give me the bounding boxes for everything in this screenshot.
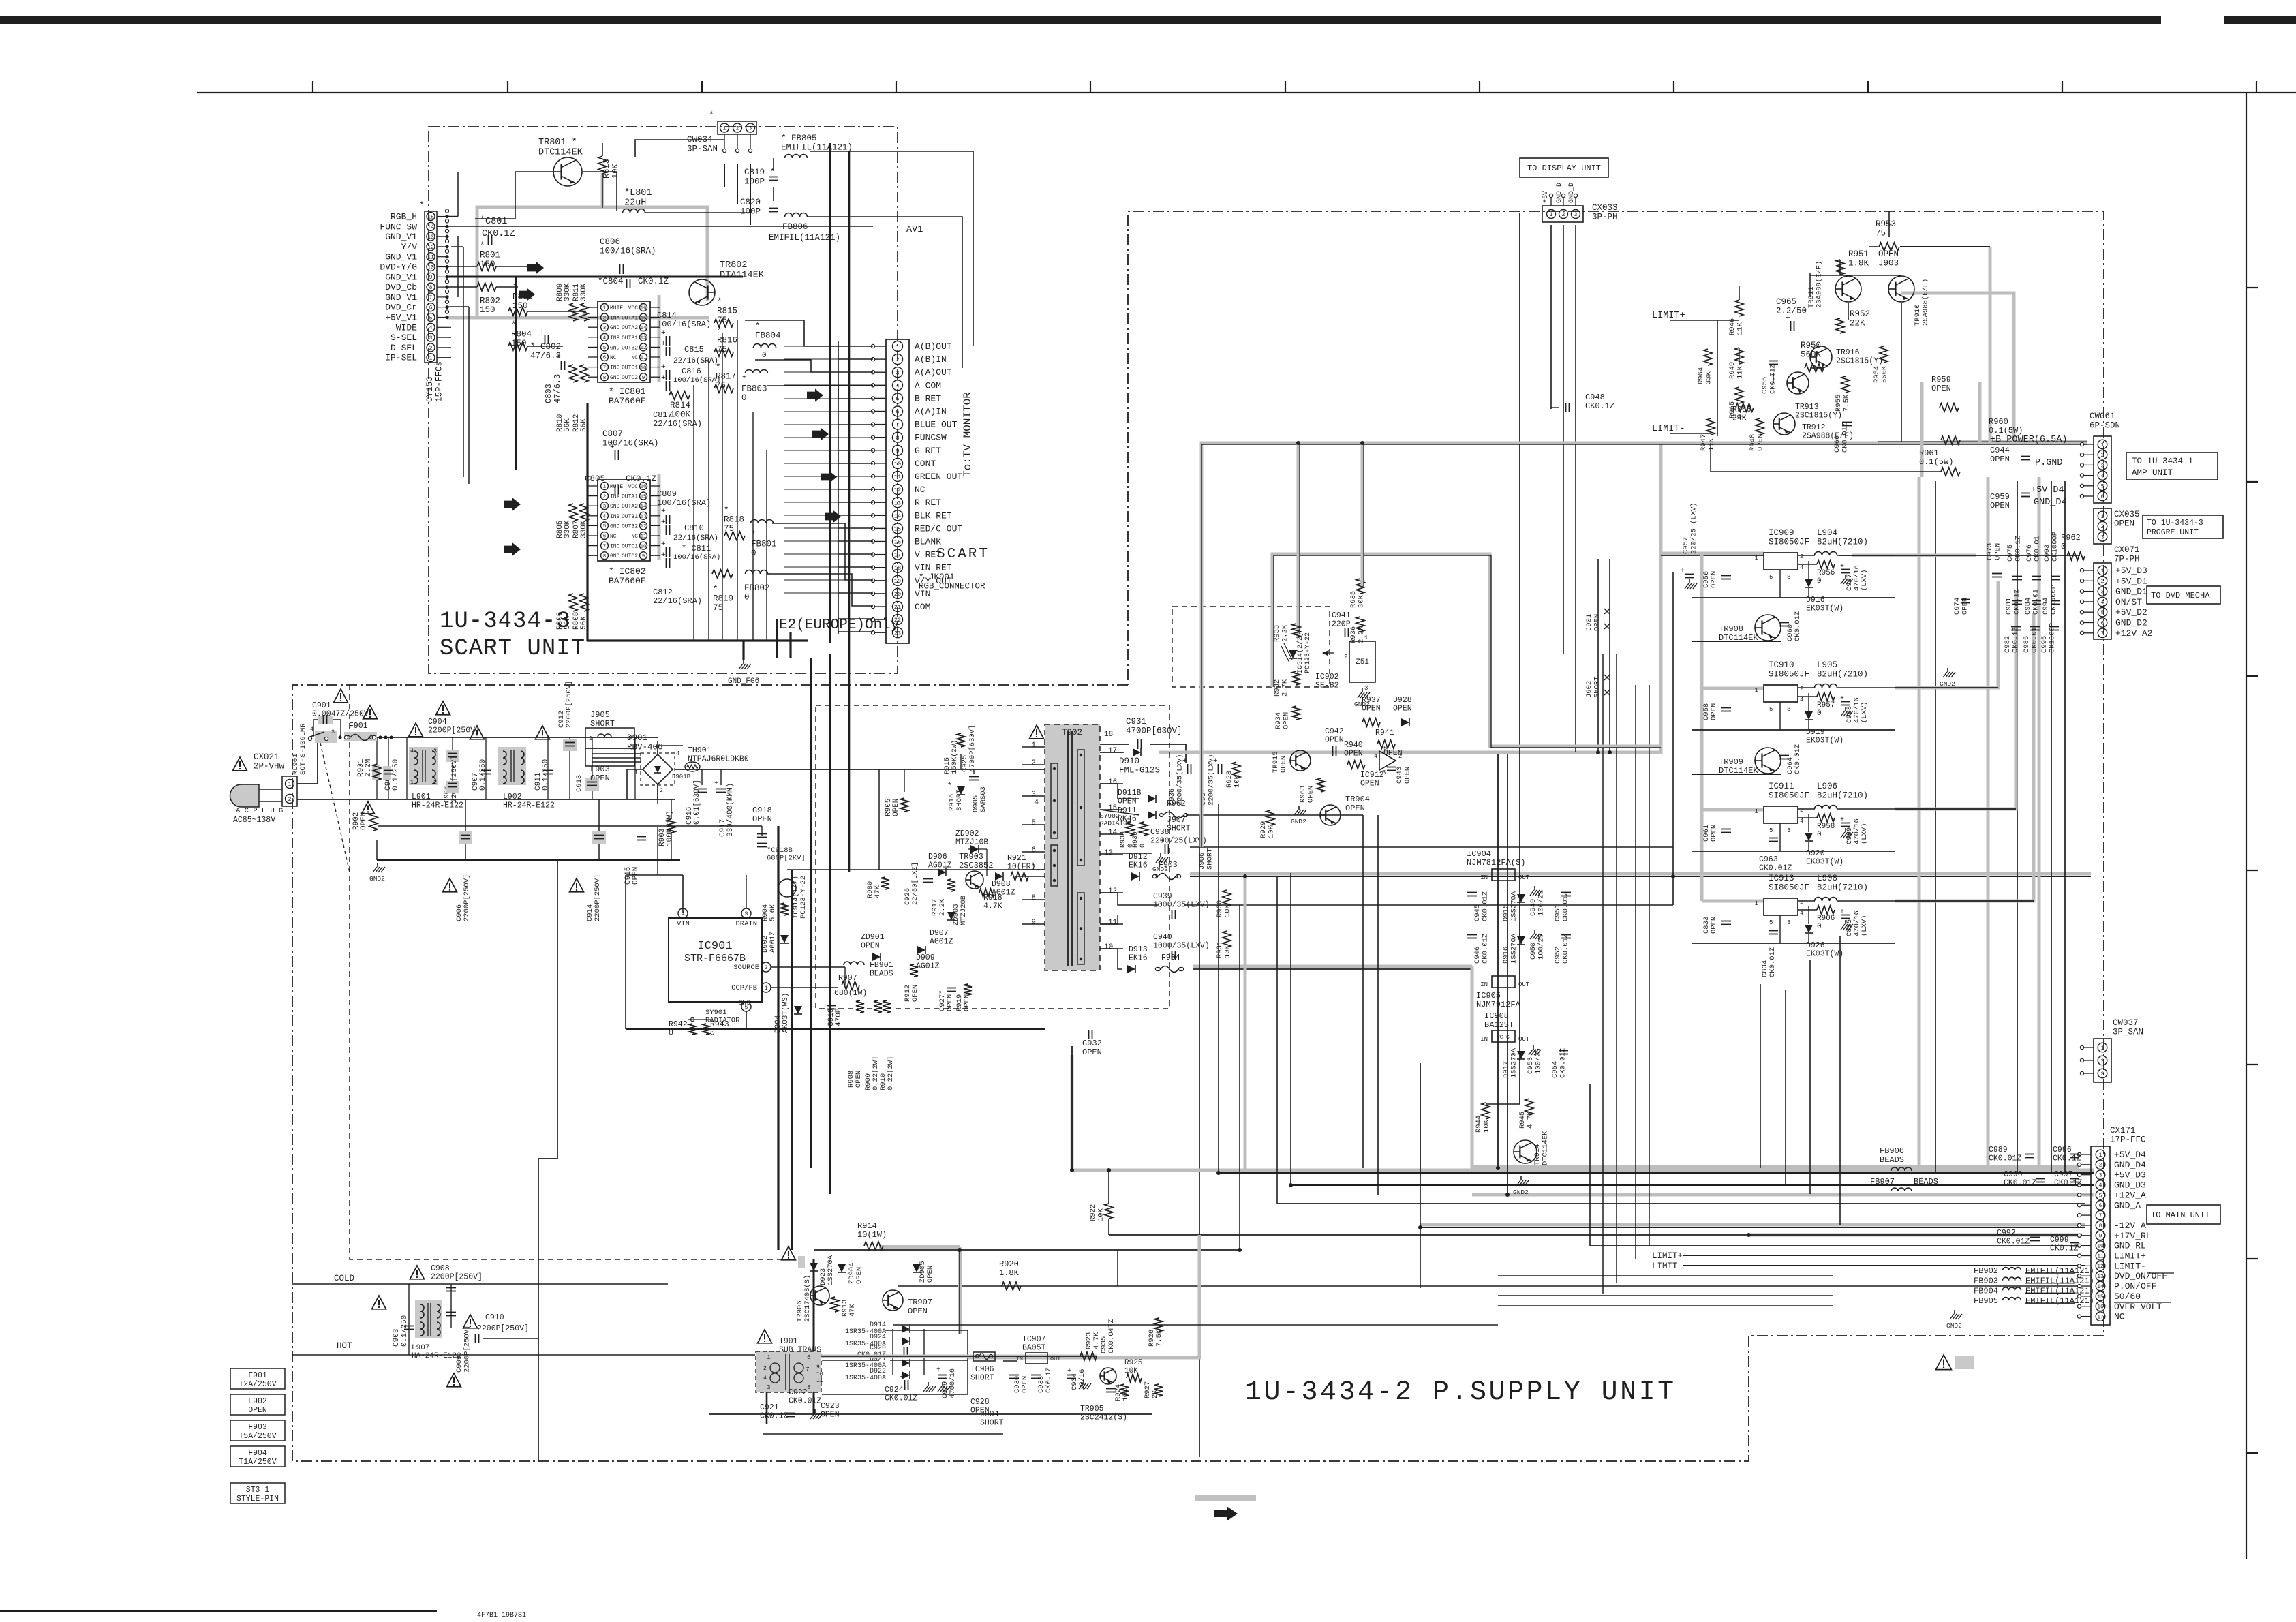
svg-text:1SS270A: 1SS270A — [1510, 933, 1518, 964]
dashed boundary inner hot/cold — [350, 685, 794, 1259]
svg-text:0.1/250: 0.1/250 — [392, 759, 400, 791]
svg-text:IC910: IC910 — [1769, 660, 1794, 670]
svg-text:C908: C908 — [431, 1264, 450, 1273]
svg-text:IC902: IC902 — [1315, 673, 1339, 682]
svg-text:C954: C954 — [1551, 1061, 1559, 1078]
IC901 STR-F6667B — [669, 918, 762, 1002]
svg-text:C950: C950 — [1529, 943, 1537, 960]
svg-text:SHORT: SHORT — [970, 1374, 994, 1383]
svg-text:0: 0 — [1139, 844, 1147, 848]
regulator input gray feeder — [1700, 553, 1704, 901]
svg-text:11: 11 — [1108, 919, 1118, 927]
svg-text:14: 14 — [427, 224, 434, 230]
svg-text:IN: IN — [1480, 1036, 1488, 1043]
svg-text:5: 5 — [1031, 819, 1036, 827]
svg-text:470P: 470P — [835, 1008, 843, 1026]
svg-text:R961: R961 — [1919, 448, 1939, 458]
svg-text:TR915: TR915 — [1272, 751, 1280, 773]
svg-text:2SC1815(Y): 2SC1815(Y) — [1795, 412, 1842, 420]
svg-text:1: 1 — [2101, 514, 2104, 520]
svg-text:R933: R933 — [1273, 625, 1281, 642]
svg-text:OPEN: OPEN — [1710, 703, 1718, 720]
svg-text:R914: R914 — [857, 1221, 877, 1231]
feedback dashed box — [1172, 607, 1330, 687]
svg-text:GND2: GND2 — [1291, 818, 1306, 825]
svg-text:CK0.1Z: CK0.1Z — [638, 277, 669, 286]
svg-text:R947: R947 — [1700, 434, 1708, 451]
svg-text:GND2: GND2 — [369, 875, 385, 883]
connector CX033 3P-PH — [1542, 206, 1583, 222]
svg-text:TR904: TR904 — [1345, 795, 1370, 804]
right ruler tick 4 — [2246, 870, 2258, 871]
svg-text:RGB_H: RGB_H — [391, 212, 417, 222]
signal arrow 5 — [807, 388, 823, 401]
J901 J902 jumper marks — [1604, 609, 1610, 614]
svg-text:CK0.01Z: CK0.01Z — [1989, 1154, 2021, 1163]
svg-text:GND: GND — [610, 504, 620, 510]
svg-text:+: + — [900, 1373, 904, 1381]
svg-text:CX071: CX071 — [2114, 545, 2140, 555]
svg-text:OUTC2: OUTC2 — [622, 375, 638, 381]
svg-text:+: + — [661, 551, 666, 560]
svg-text:CK0.01Z: CK0.01Z — [1841, 423, 1850, 453]
capacitor C908 2200P[250V] — [410, 1266, 425, 1279]
ground GND2 primary — [377, 863, 378, 867]
ground GND2 TR914 — [1520, 1176, 1522, 1180]
top header bar right segment — [2224, 16, 2296, 24]
feedback arrow — [1322, 650, 1329, 656]
svg-text:*C918B: *C918B — [767, 846, 793, 855]
svg-text:VCC: VCC — [628, 305, 639, 311]
signal arrow 8 — [825, 510, 841, 523]
svg-text:CK0.1Z: CK0.1Z — [2013, 589, 2021, 615]
svg-text:TR907: TR907 — [908, 1298, 932, 1307]
svg-text:OPEN: OPEN — [926, 1266, 934, 1283]
svg-text:C910: C910 — [485, 1313, 504, 1322]
svg-text:R907: R907 — [838, 974, 857, 983]
svg-text:GND: GND — [610, 375, 620, 381]
gray trace bottom — [968, 1235, 1199, 1358]
svg-text:NC: NC — [2114, 1312, 2125, 1322]
svg-text:*: * — [751, 530, 756, 540]
svg-text:4F7B1 19B7S1: 4F7B1 19B7S1 — [477, 1612, 526, 1619]
IC909 ground rail — [1692, 597, 1895, 598]
svg-text:BA05T: BA05T — [1022, 1344, 1046, 1353]
svg-text:5: 5 — [1769, 827, 1773, 834]
svg-text:100/16(SRA): 100/16(SRA) — [600, 247, 656, 256]
capacitor C910 2200P[250V] — [463, 1315, 478, 1328]
svg-text:OPEN: OPEN — [1362, 705, 1381, 714]
svg-text:L908: L908 — [1817, 874, 1837, 883]
svg-text:15: 15 — [1108, 804, 1117, 812]
svg-text:CW037: CW037 — [2113, 1018, 2139, 1028]
svg-text:C928: C928 — [970, 1398, 990, 1407]
svg-text:2.2K: 2.2K — [1281, 624, 1289, 642]
right ruler tick 5 — [2246, 1064, 2258, 1065]
svg-text:14: 14 — [640, 504, 647, 510]
svg-text:82uH(7210): 82uH(7210) — [1817, 538, 1868, 547]
svg-text:1SS270A: 1SS270A — [1510, 891, 1518, 921]
svg-text:3P-SAN: 3P-SAN — [687, 144, 718, 154]
top header bar left segment — [0, 16, 2161, 24]
svg-text:+: + — [1182, 757, 1187, 765]
svg-text:3: 3 — [1787, 706, 1790, 713]
svg-text:OPEN: OPEN — [1345, 804, 1365, 813]
svg-text:L907: L907 — [412, 1344, 429, 1352]
svg-text:FB905: FB905 — [1974, 1296, 1998, 1306]
svg-text:GND: GND — [610, 345, 620, 351]
svg-text:4: 4 — [1034, 799, 1039, 807]
svg-text:P.ON/OFF: P.ON/OFF — [2114, 1281, 2156, 1291]
regulator output routes — [1852, 554, 1976, 557]
svg-text:OPEN: OPEN — [1021, 1376, 1029, 1393]
svg-text:G RET: G RET — [915, 446, 941, 456]
svg-text:5: 5 — [1769, 706, 1773, 713]
svg-text:4: 4 — [2099, 1182, 2102, 1189]
svg-text:0: 0 — [2061, 542, 2066, 551]
svg-text:PROGRE UNIT: PROGRE UNIT — [2147, 528, 2199, 537]
svg-text:C923: C923 — [821, 1402, 840, 1411]
connector JK901 SCART 23 pins — [886, 339, 909, 643]
svg-text:DVD_Cr: DVD_Cr — [385, 303, 417, 313]
svg-text:C997: C997 — [2054, 1170, 2073, 1179]
svg-text:2200P[250V]: 2200P[250V] — [431, 1273, 483, 1282]
resistor R958 0 — [1817, 814, 1835, 822]
svg-text:7P-PH: 7P-PH — [2114, 555, 2140, 564]
svg-text:6: 6 — [1031, 846, 1036, 855]
svg-text:CY153: CY153 — [425, 376, 435, 402]
svg-text:+: + — [936, 1366, 940, 1374]
svg-text:1SS270A: 1SS270A — [827, 1255, 835, 1285]
top ruler tick 1 — [312, 81, 313, 93]
svg-text:21: 21 — [894, 604, 901, 611]
svg-text:C994: C994 — [2042, 598, 2050, 615]
transistor TR914 DTC114EK — [1514, 1140, 1537, 1163]
svg-text:CX035: CX035 — [2114, 510, 2140, 519]
svg-text:2200P[250V]: 2200P[250V] — [428, 726, 480, 735]
transistor TR916 2SC1815(Y) — [1810, 346, 1832, 368]
svg-text:AG01Z: AG01Z — [930, 938, 953, 947]
svg-text:CW061: CW061 — [2090, 412, 2115, 421]
connector CY153 15P-FFCs — [425, 211, 437, 363]
svg-text:2: 2 — [1031, 759, 1036, 767]
svg-text:C939: C939 — [1153, 892, 1172, 901]
svg-text:ZD901: ZD901 — [861, 933, 885, 942]
svg-text:8: 8 — [603, 554, 607, 560]
svg-text:TR916: TR916 — [1836, 348, 1860, 357]
svg-text:11: 11 — [640, 534, 647, 540]
svg-text:CK0.047Z: CK0.047Z — [1107, 1319, 1116, 1353]
transistor TR910 2SA988(E/F) — [1888, 276, 1914, 302]
svg-text:9: 9 — [816, 1364, 820, 1371]
svg-text:1U-3434-2 P.SUPPLY UNIT: 1U-3434-2 P.SUPPLY UNIT — [1245, 1377, 1677, 1408]
svg-text:13: 13 — [427, 234, 434, 241]
svg-text:4: 4 — [763, 1375, 767, 1381]
svg-text:2: 2 — [1398, 753, 1402, 760]
svg-text:F904: F904 — [248, 1449, 267, 1458]
svg-text:2200P[250V]: 2200P[250V] — [450, 756, 459, 803]
svg-text:12: 12 — [640, 346, 646, 351]
svg-text:1: 1 — [1550, 212, 1553, 218]
svg-text:4: 4 — [2101, 600, 2104, 606]
svg-text:TR801 *: TR801 * — [538, 138, 577, 148]
T902 pin stub wires — [1100, 752, 1123, 753]
svg-text:R935: R935 — [1349, 591, 1358, 608]
big gray feedback route +B — [1201, 443, 2087, 847]
svg-text:T5A/250V: T5A/250V — [239, 1432, 276, 1441]
svg-text:+17V_RL: +17V_RL — [2114, 1231, 2152, 1241]
svg-text:6: 6 — [2099, 1203, 2102, 1209]
svg-text:C952: C952 — [1554, 947, 1562, 964]
svg-text:R944: R944 — [1475, 1116, 1483, 1133]
ground bottom C921 — [814, 1409, 816, 1413]
primary ground bus GND2 — [377, 859, 680, 861]
P.SUPPLY unit dash-dot border 1U-3434-2 — [292, 211, 2104, 1461]
svg-text:INC: INC — [610, 365, 620, 371]
svg-text:IC907: IC907 — [1022, 1335, 1046, 1344]
regulator down verticals — [1760, 984, 1761, 1168]
svg-text:FUNCSW: FUNCSW — [915, 433, 947, 443]
svg-text:TR802: TR802 — [720, 260, 748, 271]
gray vertical feeders — [1244, 876, 1247, 1170]
transformer L901 HR-24R-E122 — [409, 747, 438, 785]
label box TO 1U-3434-1 AMP UNIT — [2126, 453, 2218, 480]
svg-text:1U-3434-3: 1U-3434-3 — [440, 609, 571, 634]
svg-text:3: 3 — [1787, 574, 1790, 581]
primary AC wires — [297, 783, 318, 784]
svg-text:22K: 22K — [1850, 319, 1865, 328]
svg-text:R934: R934 — [1274, 712, 1283, 729]
svg-text:R804: R804 — [511, 330, 532, 339]
svg-text:IC904: IC904 — [1467, 849, 1491, 859]
svg-text:5: 5 — [429, 315, 433, 321]
svg-text:330/400(KMM): 330/400(KMM) — [726, 783, 735, 837]
svg-text:2: 2 — [2101, 453, 2104, 459]
svg-text:CK0.1Z: CK0.1Z — [1045, 1367, 1053, 1393]
transformer L907 HA-24R-E122 — [415, 1300, 442, 1338]
svg-text:3: 3 — [1364, 685, 1368, 692]
svg-text:3P-PH: 3P-PH — [1592, 213, 1618, 222]
svg-text:22uH: 22uH — [624, 198, 646, 209]
svg-text:2: 2 — [288, 797, 292, 803]
svg-text:OUTC1: OUTC1 — [622, 365, 638, 371]
signal arrow 6 — [812, 427, 829, 440]
jumper IC906 SHORT — [973, 1352, 995, 1361]
svg-text:IN: IN — [1480, 874, 1488, 881]
svg-text:BEADS: BEADS — [1914, 1177, 1938, 1187]
svg-text:C957: C957 — [1682, 537, 1690, 554]
svg-text:C942: C942 — [1325, 727, 1344, 736]
svg-text:RED/C OUT: RED/C OUT — [915, 523, 962, 534]
svg-text:R937: R937 — [1362, 696, 1381, 705]
signal arrow 4 — [504, 542, 521, 555]
svg-text:FB803: FB803 — [741, 384, 767, 394]
svg-text:DTC114EK: DTC114EK — [538, 148, 583, 158]
svg-text:C974: C974 — [1953, 598, 1961, 615]
svg-text:B RET: B RET — [915, 393, 941, 403]
svg-text:C948: C948 — [1585, 393, 1605, 402]
svg-text:1.8K: 1.8K — [1848, 259, 1869, 269]
svg-text:3: 3 — [2101, 534, 2104, 540]
svg-text:CK0.01: CK0.01 — [2031, 627, 2039, 653]
svg-text:BA7660F: BA7660F — [609, 396, 646, 406]
svg-text:C945: C945 — [1473, 904, 1482, 921]
svg-text:3: 3 — [1787, 827, 1790, 834]
svg-text:330K: 330K — [580, 283, 588, 301]
svg-text:ST3 1: ST3 1 — [246, 1486, 270, 1495]
svg-text:4: 4 — [896, 382, 899, 389]
svg-text:VIN: VIN — [677, 920, 690, 928]
svg-text:DTC114EK: DTC114EK — [1542, 1131, 1550, 1165]
svg-text:2200/25(LXV): 2200/25(LXV) — [1150, 837, 1207, 846]
svg-text:F902: F902 — [1167, 799, 1186, 808]
svg-text:7: 7 — [603, 365, 607, 371]
svg-text:CK0.1Z: CK0.1Z — [2053, 1154, 2081, 1163]
svg-text:GND_V1: GND_V1 — [385, 292, 417, 303]
svg-text:A(B)OUT: A(B)OUT — [915, 341, 952, 352]
svg-text:G: G — [1506, 1035, 1510, 1041]
ground GND_FG6 — [743, 643, 745, 660]
svg-text:4.7K: 4.7K — [983, 902, 1002, 911]
svg-text:0: 0 — [762, 352, 767, 360]
svg-text:OUT: OUT — [1050, 1356, 1060, 1362]
svg-text:220P: 220P — [1332, 620, 1351, 629]
svg-text:J903: J903 — [1878, 259, 1899, 269]
svg-text:9: 9 — [1031, 919, 1036, 927]
svg-text:CK0.1Z: CK0.1Z — [2054, 1179, 2083, 1188]
svg-text:LIMIT-: LIMIT- — [2114, 1261, 2146, 1271]
svg-text:R815: R815 — [717, 307, 737, 316]
svg-text:100P: 100P — [744, 177, 765, 187]
svg-text:SI8050JF: SI8050JF — [1769, 538, 1809, 547]
svg-text:+: + — [1160, 838, 1165, 846]
svg-text:100/16(SRA): 100/16(SRA) — [657, 498, 711, 508]
svg-text:3: 3 — [2101, 1071, 2104, 1077]
svg-text:+: + — [1213, 757, 1218, 765]
svg-text:CK0.01Z: CK0.01Z — [2004, 1179, 2036, 1188]
svg-text:AG01Z: AG01Z — [928, 861, 952, 870]
svg-text:2.2/50: 2.2/50 — [1776, 307, 1807, 316]
svg-text:L901: L901 — [412, 793, 431, 801]
svg-text:IC914(2/2): IC914(2/2) — [1296, 632, 1304, 673]
svg-text:GND_D: GND_D — [1556, 183, 1563, 203]
svg-text:SOT-S-109LMR: SOT-S-109LMR — [299, 723, 307, 775]
svg-text:5: 5 — [603, 346, 607, 351]
svg-text:D917: D917 — [1502, 1061, 1510, 1078]
svg-text:AG01Z: AG01Z — [769, 931, 777, 953]
svg-text:4: 4 — [1800, 564, 1803, 571]
svg-text:FB802: FB802 — [744, 583, 770, 593]
svg-text:NTPAJ6R0LDKB0: NTPAJ6R0LDKB0 — [688, 755, 749, 764]
svg-text:RGB_CONNECTOR: RGB_CONNECTOR — [919, 582, 985, 592]
comparator IC912 OPEN — [1379, 751, 1396, 770]
overline on OFF / 50/60 / OVER VOLT — [2147, 1272, 2174, 1274]
svg-text:OPEN: OPEN — [821, 1411, 840, 1420]
svg-text:+: + — [661, 329, 666, 337]
svg-text:2: 2 — [1800, 899, 1803, 906]
svg-text:INB: INB — [610, 335, 620, 341]
svg-text:WIDE: WIDE — [396, 322, 417, 333]
svg-text:4700P[630V]: 4700P[630V] — [1126, 726, 1182, 736]
svg-text:CK0.01Z: CK0.01Z — [1997, 1238, 2030, 1246]
svg-text:GND_D3: GND_D3 — [2114, 1180, 2146, 1191]
svg-text:R802: R802 — [480, 296, 500, 306]
svg-text:FB804: FB804 — [755, 331, 781, 341]
svg-text:1: 1 — [2101, 442, 2104, 448]
svg-text:R942: R942 — [669, 1020, 688, 1029]
svg-text:4: 4 — [1800, 910, 1803, 917]
svg-text:SI8050JF: SI8050JF — [1769, 670, 1809, 679]
svg-text:VC: VC — [1497, 1035, 1503, 1041]
svg-text:EK03T(W): EK03T(W) — [1806, 858, 1843, 867]
svg-text:7.5K: 7.5K — [1843, 394, 1851, 412]
svg-text:CK1000P: CK1000P — [2050, 585, 2058, 615]
inductor L903 OPEN — [585, 748, 634, 766]
svg-text:5: 5 — [2101, 484, 2104, 490]
svg-text:CK0.1Z: CK0.1Z — [2050, 1244, 2079, 1253]
svg-text:100/16(SRA): 100/16(SRA) — [673, 376, 720, 384]
svg-text:LIMIT+: LIMIT+ — [1652, 1251, 1683, 1261]
svg-text:CK1000P: CK1000P — [2049, 623, 2057, 653]
svg-text:SI8050JF: SI8050JF — [1769, 791, 1809, 801]
svg-text:C814: C814 — [657, 311, 677, 320]
svg-text:J905: J905 — [590, 710, 610, 720]
svg-text:11K: 11K — [1708, 438, 1716, 451]
svg-text:15: 15 — [640, 494, 647, 500]
svg-text:*: * — [755, 322, 761, 331]
svg-text:TO MAIN UNIT: TO MAIN UNIT — [2151, 1210, 2209, 1220]
svg-text:C803: C803 — [544, 384, 553, 403]
capacitor C909 2200P[250V] — [447, 1373, 461, 1387]
svg-text:C989: C989 — [1989, 1146, 2008, 1154]
misc crossing verticals center — [1649, 685, 1650, 1246]
svg-text:AG01Z: AG01Z — [992, 889, 1015, 898]
svg-text:HA-24R-E122: HA-24R-E122 — [412, 1352, 461, 1360]
svg-text:CK0.01Z: CK0.01Z — [1769, 947, 1777, 977]
svg-text:R949: R949 — [1728, 362, 1736, 379]
svg-text:9: 9 — [642, 376, 645, 381]
svg-text:100/16(SRA): 100/16(SRA) — [673, 553, 720, 562]
svg-text:FB906: FB906 — [1880, 1146, 1904, 1156]
svg-text:D913: D913 — [1129, 945, 1148, 954]
SCART connector routing bundle — [693, 385, 694, 641]
svg-text:GND_V1: GND_V1 — [385, 232, 417, 242]
svg-text:OPEN: OPEN — [1593, 614, 1602, 631]
IC911 ground rail — [1692, 851, 1895, 852]
svg-text:*C804: *C804 — [598, 277, 624, 286]
ground GND2 TR915 — [1298, 806, 1300, 810]
svg-text:2200P[250V]: 2200P[250V] — [463, 874, 471, 921]
svg-text:OPEN: OPEN — [1307, 786, 1315, 803]
svg-text:SHORT: SHORT — [1167, 825, 1191, 833]
svg-text:0: 0 — [1817, 577, 1822, 585]
svg-text:LIMIT+: LIMIT+ — [1652, 311, 1685, 321]
SCART gray highlight traces — [477, 207, 707, 316]
svg-text:R921: R921 — [1007, 854, 1026, 863]
svg-text:+5V_V1: +5V_V1 — [385, 313, 417, 323]
svg-text:OPEN: OPEN — [360, 812, 368, 830]
fuse table F903 — [230, 1420, 285, 1441]
svg-text:L903: L903 — [590, 765, 610, 774]
svg-text:2200P[250V]: 2200P[250V] — [463, 1326, 472, 1373]
svg-text:*: * — [419, 200, 425, 211]
svg-text:R951: R951 — [1848, 249, 1869, 259]
fuse table F901 — [230, 1368, 285, 1389]
svg-text:*: * — [716, 363, 721, 372]
svg-text:R943: R943 — [710, 1020, 729, 1029]
svg-text:C901: C901 — [312, 701, 331, 710]
svg-text:+: + — [661, 508, 666, 516]
